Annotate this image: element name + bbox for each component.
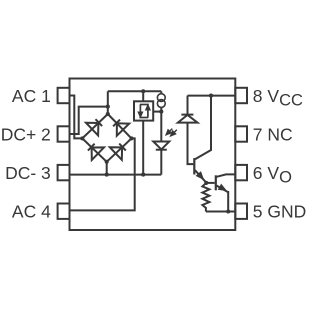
wire Q1 emitter node to Q2 base (206, 182, 214, 184)
svg-text:DC- 3: DC- 3 (5, 163, 51, 183)
wire VCC rail to pin 8 (188, 95, 236, 97)
pin 1 pad (58, 88, 70, 103)
junction bottom rail / box output (141, 173, 145, 177)
transistor Q2 base bar (215, 175, 217, 190)
transistor Q1 base bar (193, 158, 195, 174)
wire photodiode column upper (187, 96, 189, 115)
wire bridge bottom corner to rail (106, 162, 108, 175)
svg-text:7 NC: 7 NC (253, 124, 293, 144)
pin 8 pad (235, 88, 247, 103)
svg-text:DC+ 2: DC+ 2 (1, 124, 51, 144)
wire pin2 to bridge top node (70, 107, 108, 134)
diode bridge edge TL (82, 114, 108, 138)
junction VCC / Q1 collector (209, 94, 213, 98)
junction bridge top corner (106, 112, 110, 116)
wire pin3 bottom rail (70, 174, 162, 176)
transistor Q1 collector (195, 96, 211, 160)
threshold detector box (134, 101, 153, 120)
wire pin1 to bridge left corner (70, 96, 83, 139)
transistor Q1 emitter (195, 170, 206, 183)
IC body U1 (70, 79, 236, 231)
wire ground rail to pin 5 (206, 211, 235, 213)
junction ground rail / Q2 emitter (226, 209, 230, 213)
pin 6 pad (235, 165, 247, 180)
pin 2 pad (58, 126, 70, 141)
junction top rail / box input (141, 89, 145, 93)
svg-text:AC 1: AC 1 (12, 86, 51, 106)
bridge diode D1 top-left (86, 119, 102, 135)
diode bridge edge BR (107, 138, 132, 161)
bridge diode D2 top-right (113, 120, 129, 136)
pin 5 pad (235, 204, 247, 219)
photodiode D6 (178, 115, 198, 123)
svg-text:8 VCC: 8 VCC (253, 86, 303, 110)
bridge diode D3 bottom-left (88, 144, 104, 160)
wire photodiode to Q1 base (188, 123, 194, 165)
wire bridge top corner to top rail (107, 91, 109, 114)
diode bridge edge TR (108, 114, 132, 138)
LED emission arrow 2 (171, 130, 177, 136)
svg-text:6 VO: 6 VO (253, 163, 292, 187)
wire threshold box right stub (153, 111, 161, 113)
junction node pin2/top (106, 105, 110, 109)
junction bridge bottom corner (105, 160, 109, 164)
threshold box symbol bottom bar (139, 117, 148, 119)
pin 7 pad (235, 126, 247, 141)
wire LED cathode to rail (160, 150, 162, 175)
bridge diode D4 bottom-right (110, 144, 126, 160)
resistor R1 (202, 183, 209, 212)
junction bottom rail / bridge (105, 173, 109, 177)
LED D5 (153, 142, 169, 150)
junction current source / box (159, 110, 163, 114)
threshold box symbol down arrow (139, 105, 143, 117)
wire pin4 to bridge right corner (70, 138, 135, 210)
pin 3 pad (58, 165, 70, 180)
wire Q2 emitter to ground rail (227, 192, 229, 212)
current source I1 (157, 94, 165, 108)
transistor Q2 collector to pin 6 (217, 174, 236, 176)
svg-text:AC 4: AC 4 (12, 202, 51, 222)
svg-text:5 GND: 5 GND (253, 202, 306, 222)
threshold box symbol up arrow (146, 106, 150, 118)
pin 4 pad (58, 204, 70, 219)
wire threshold box output (142, 121, 144, 175)
wire top rail (108, 90, 162, 92)
junction Q1 emitter node (204, 181, 208, 185)
diode bridge edge BL (82, 138, 106, 161)
LED emission arrow 1 (167, 129, 173, 135)
wire top rail to threshold box (142, 91, 144, 101)
transistor Q2 emitter (217, 185, 228, 192)
threshold box symbol top bar (140, 104, 149, 106)
junction bridge right corner (129, 136, 133, 140)
wire current source to LED (160, 107, 162, 141)
wire current source top stub (160, 91, 162, 94)
junction bridge left corner (80, 136, 84, 140)
